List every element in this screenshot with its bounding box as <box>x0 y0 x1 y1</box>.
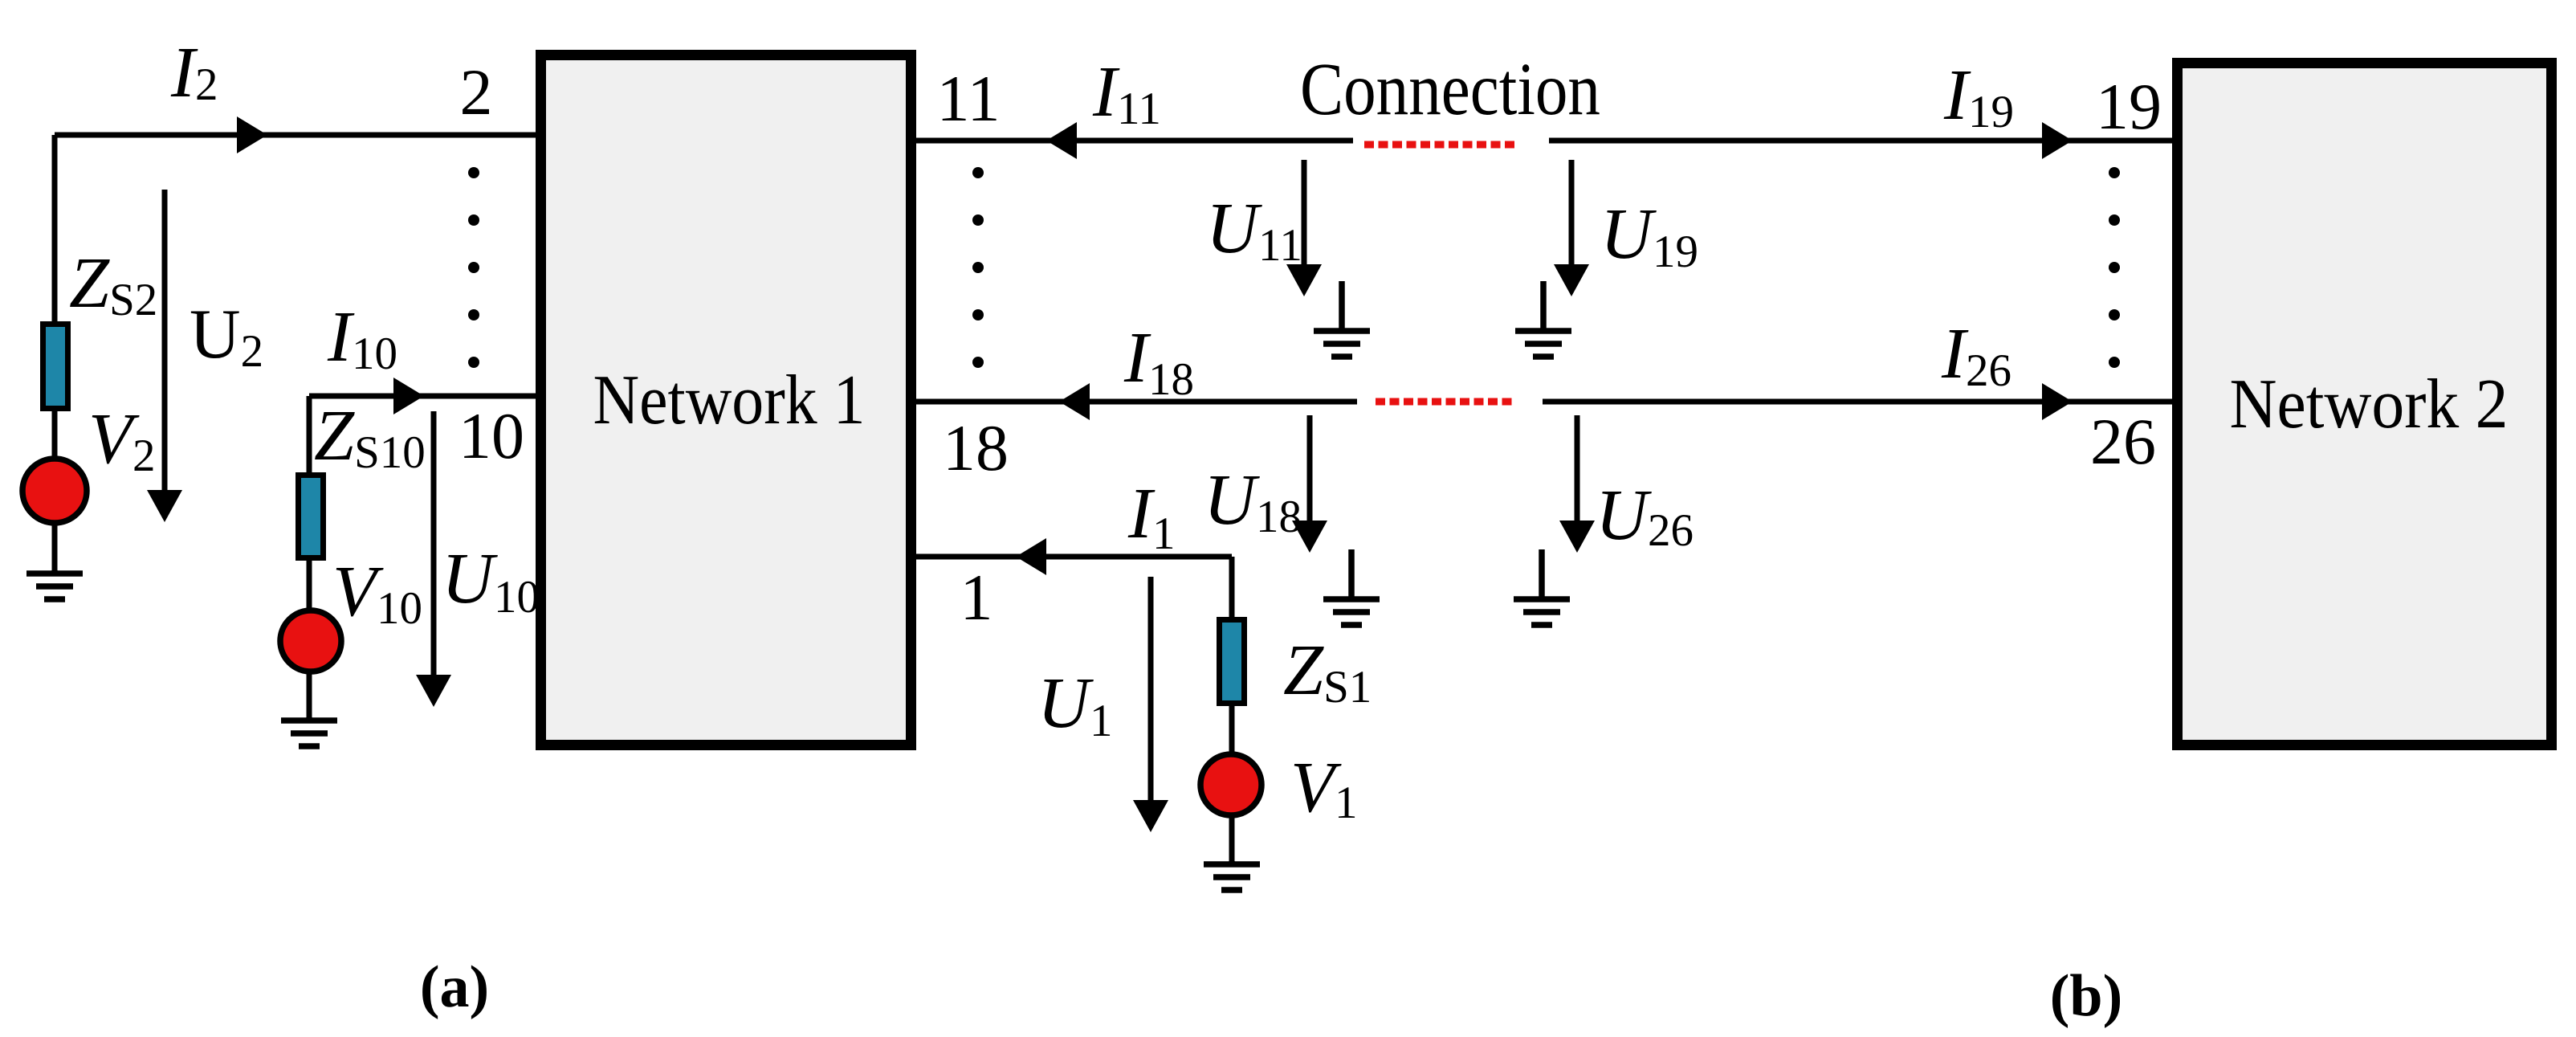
svg-text:11: 11 <box>937 62 1001 135</box>
svg-text:Network 1: Network 1 <box>593 361 866 439</box>
svg-text:(b): (b) <box>2050 963 2122 1029</box>
svg-text:(a): (a) <box>420 954 489 1020</box>
svg-text:1: 1 <box>960 561 993 634</box>
svg-text:Network 2: Network 2 <box>2230 365 2509 443</box>
svg-text:2: 2 <box>460 55 493 129</box>
svg-text:10: 10 <box>459 399 524 472</box>
svg-text:26: 26 <box>2090 405 2156 478</box>
svg-text:Connection: Connection <box>1300 48 1600 131</box>
svg-text:19: 19 <box>2096 70 2162 143</box>
svg-text:18: 18 <box>943 411 1009 484</box>
